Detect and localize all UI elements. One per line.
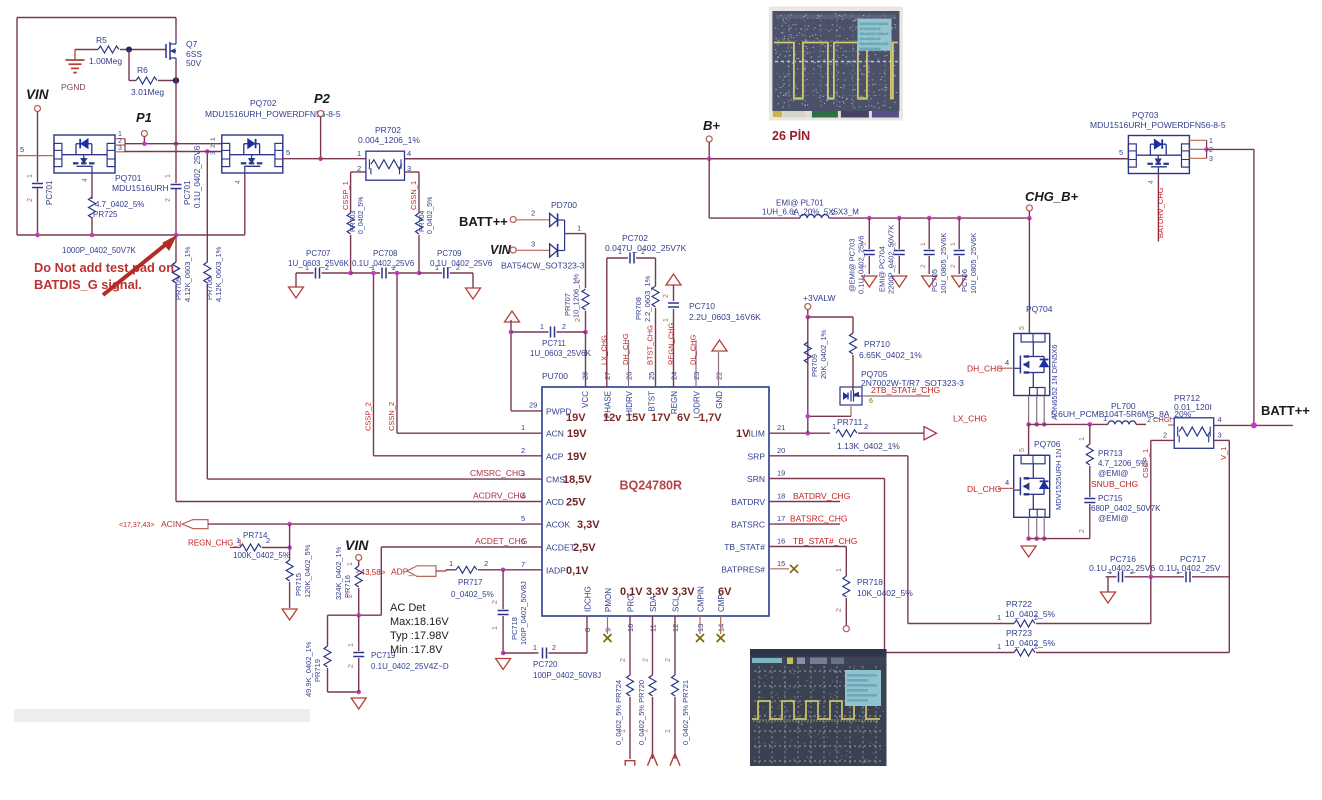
svg-text:BATDRV_CHG: BATDRV_CHG — [793, 491, 850, 501]
svg-text:2: 2 — [347, 594, 354, 598]
svg-text:PR717: PR717 — [458, 578, 483, 587]
svg-text:1: 1 — [577, 224, 581, 233]
svg-text:1: 1 — [435, 265, 439, 272]
svg-text:PR706: PR706 — [205, 277, 214, 300]
svg-text:1: 1 — [1176, 569, 1180, 576]
svg-text:0_0402_5% PR720: 0_0402_5% PR720 — [637, 680, 646, 745]
svg-text:17: 17 — [777, 514, 785, 523]
svg-text:3,3V: 3,3V — [646, 586, 669, 598]
svg-text:BAT54CW_SOT323-3: BAT54CW_SOT323-3 — [501, 261, 585, 271]
svg-text:3: 3 — [1218, 431, 1222, 440]
svg-text:ACP: ACP — [546, 451, 564, 461]
svg-text:17V: 17V — [651, 412, 671, 424]
svg-text:15V: 15V — [626, 412, 646, 424]
svg-text:1: 1 — [449, 559, 453, 568]
svg-text:REGN_CHG_1: REGN_CHG_1 — [188, 539, 243, 548]
svg-text:LX_CHG: LX_CHG — [600, 335, 609, 365]
svg-text:EMI@ PL701: EMI@ PL701 — [776, 199, 824, 208]
svg-text:PQ703: PQ703 — [1132, 110, 1159, 120]
svg-text:SRN: SRN — [747, 474, 765, 484]
svg-text:1: 1 — [1209, 138, 1213, 145]
svg-text:V_1: V_1 — [1219, 447, 1228, 460]
svg-text:ADP_: ADP_ — [391, 567, 413, 577]
svg-text:324K_0402_1%: 324K_0402_1% — [334, 546, 343, 600]
svg-text:0.047U_0402_25V7K: 0.047U_0402_25V7K — [605, 243, 687, 253]
svg-text:0_0402_5% PR724: 0_0402_5% PR724 — [614, 680, 623, 745]
svg-text:49.9K_0402_1%: 49.9K_0402_1% — [304, 641, 313, 697]
svg-text:1,7V: 1,7V — [699, 412, 722, 424]
svg-text:PMON: PMON — [604, 588, 613, 612]
svg-text:2: 2 — [860, 264, 867, 268]
svg-text:CSSN_1: CSSN_1 — [409, 181, 418, 210]
svg-text:1: 1 — [27, 174, 34, 178]
svg-text:4: 4 — [1005, 478, 1009, 487]
svg-text:10K_0402_5%: 10K_0402_5% — [857, 588, 913, 598]
svg-text:29: 29 — [529, 401, 537, 410]
svg-text:1: 1 — [663, 318, 670, 322]
svg-text:4: 4 — [82, 178, 89, 182]
svg-text:1: 1 — [860, 242, 867, 246]
svg-text:2: 2 — [357, 164, 361, 173]
svg-text:2: 2 — [1034, 613, 1038, 622]
svg-text:19V: 19V — [567, 451, 587, 463]
svg-text:1: 1 — [305, 265, 309, 272]
svg-text:CSSP_2: CSSP_2 — [364, 402, 373, 431]
svg-text:5: 5 — [20, 145, 24, 154]
svg-text:ACDRV_CHG: ACDRV_CHG — [473, 491, 526, 501]
svg-text:@EMI@: @EMI@ — [1098, 469, 1128, 478]
svg-text:1: 1 — [236, 536, 240, 545]
svg-text:PQ702: PQ702 — [250, 98, 277, 108]
svg-text:PR718: PR718 — [857, 577, 883, 587]
svg-text:50V: 50V — [186, 58, 201, 68]
svg-text:2: 2 — [492, 600, 499, 604]
svg-text:BATT++: BATT++ — [459, 214, 508, 229]
svg-text:1: 1 — [521, 423, 525, 432]
svg-text:PC706: PC706 — [960, 269, 969, 292]
svg-text:PC711: PC711 — [542, 339, 566, 348]
svg-text:1: 1 — [836, 568, 843, 572]
svg-text:ACDET: ACDET — [546, 543, 575, 553]
svg-text:2: 2 — [620, 658, 627, 662]
svg-text:1: 1 — [920, 242, 927, 246]
svg-text:100P_0402_50V8J: 100P_0402_50V8J — [533, 671, 601, 680]
svg-text:21: 21 — [777, 423, 785, 432]
svg-text:CSCP_1: CSCP_1 — [1141, 449, 1150, 478]
svg-text:10_0402_5%: 10_0402_5% — [1005, 609, 1056, 619]
svg-text:TB_STAT#_CHG: TB_STAT#_CHG — [793, 536, 857, 546]
svg-text:0.1U_0402_25V: 0.1U_0402_25V — [1159, 563, 1221, 573]
svg-text:Min :17.8V: Min :17.8V — [390, 644, 443, 656]
svg-text:BATT++: BATT++ — [1261, 403, 1310, 418]
svg-text:1.13K_0402_1%: 1.13K_0402_1% — [837, 441, 900, 451]
svg-text:28: 28 — [581, 372, 590, 380]
svg-text:PR709: PR709 — [810, 354, 819, 377]
svg-text:PC707: PC707 — [306, 249, 331, 258]
svg-text:6V: 6V — [677, 412, 691, 424]
svg-text:4.7_0402_5%: 4.7_0402_5% — [95, 200, 144, 209]
svg-text:1: 1 — [492, 626, 499, 630]
svg-text:SNUB_CHG: SNUB_CHG — [1091, 479, 1138, 489]
svg-text:+3VALW: +3VALW — [803, 293, 836, 303]
svg-text:5: 5 — [286, 148, 290, 157]
svg-text:2: 2 — [950, 264, 957, 268]
svg-text:0.01_120I: 0.01_120I — [1174, 402, 1212, 412]
svg-text:0_0402_5%: 0_0402_5% — [451, 590, 494, 599]
svg-text:2: 2 — [562, 324, 566, 331]
svg-text:10_0402_5%: 10_0402_5% — [1005, 638, 1056, 648]
svg-text:2: 2 — [210, 144, 217, 148]
svg-text:2: 2 — [864, 422, 868, 431]
svg-text:2: 2 — [392, 265, 396, 272]
svg-text:2: 2 — [1130, 569, 1134, 576]
svg-text:DL_CHG: DL_CHG — [967, 484, 1001, 494]
svg-text:1U_0603_25V6K: 1U_0603_25V6K — [288, 259, 350, 268]
svg-text:VIN: VIN — [490, 243, 512, 257]
svg-text:BATSRC_CHG: BATSRC_CHG — [790, 514, 847, 524]
svg-text:2: 2 — [552, 645, 556, 652]
svg-text:0.1U_0402_25V4Z~D: 0.1U_0402_25V4Z~D — [371, 662, 449, 671]
svg-text:2: 2 — [456, 265, 460, 272]
svg-text:2,5V: 2,5V — [573, 542, 596, 554]
svg-text:1: 1 — [832, 422, 836, 431]
svg-text:1: 1 — [348, 643, 355, 647]
svg-text:CHG_B+: CHG_B+ — [1025, 189, 1079, 204]
svg-text:7: 7 — [521, 560, 525, 569]
svg-text:PR708: PR708 — [634, 297, 643, 320]
svg-text:<17,37,43>: <17,37,43> — [119, 522, 154, 529]
svg-text:PQ704: PQ704 — [1026, 304, 1053, 314]
svg-text:Q7: Q7 — [186, 39, 198, 49]
svg-text:ILIM: ILIM — [748, 429, 765, 439]
svg-text:2: 2 — [663, 294, 670, 298]
svg-text:2: 2 — [1079, 529, 1086, 533]
svg-text:TB_STAT#: TB_STAT# — [724, 542, 765, 552]
svg-text:2: 2 — [665, 658, 672, 662]
svg-text:PC715: PC715 — [1098, 494, 1123, 503]
svg-text:2: 2 — [1034, 642, 1038, 651]
svg-text:LX_CHG: LX_CHG — [953, 414, 987, 424]
svg-text:PR711: PR711 — [837, 417, 863, 427]
svg-text:1: 1 — [665, 729, 672, 733]
svg-text:4: 4 — [407, 149, 411, 158]
svg-text:PR723: PR723 — [1006, 628, 1032, 638]
svg-text:15: 15 — [777, 559, 785, 568]
svg-text:2: 2 — [836, 608, 843, 612]
svg-text:3.01Meg: 3.01Meg — [131, 87, 164, 97]
svg-text:1: 1 — [997, 642, 1001, 651]
svg-text:CSSP_1: CSSP_1 — [341, 181, 350, 210]
svg-text:P2: P2 — [314, 91, 331, 106]
svg-text:2200P_0402_50V7K: 2200P_0402_50V7K — [886, 225, 895, 294]
svg-text:2: 2 — [348, 664, 355, 668]
svg-text:1: 1 — [540, 324, 544, 331]
svg-text:25V: 25V — [566, 497, 586, 509]
svg-text:PC701: PC701 — [45, 180, 54, 205]
svg-text:ACDET_CHG: ACDET_CHG — [475, 536, 527, 546]
svg-text:CMSRC_CHG: CMSRC_CHG — [470, 468, 525, 478]
svg-text:1: 1 — [1108, 569, 1112, 576]
svg-text:0.1U_0402_25V6: 0.1U_0402_25V6 — [193, 145, 202, 208]
svg-text:PQ706: PQ706 — [1034, 439, 1061, 449]
svg-text:Max:18.16V: Max:18.16V — [390, 616, 449, 628]
svg-text:10U_0805_25V6K: 10U_0805_25V6K — [939, 233, 948, 294]
svg-text:EMI@ PC704: EMI@ PC704 — [877, 246, 886, 292]
svg-text:PC705: PC705 — [930, 269, 939, 292]
svg-text:1U_0603_25V6K: 1U_0603_25V6K — [530, 349, 592, 358]
svg-text:1: 1 — [950, 242, 957, 246]
svg-text:1V: 1V — [736, 428, 750, 440]
svg-text:2: 2 — [27, 198, 34, 202]
svg-text:2: 2 — [118, 138, 122, 145]
svg-text:Do Not add test pad on: Do Not add test pad on — [34, 260, 174, 275]
svg-text:1000P_0402_50V7K: 1000P_0402_50V7K — [62, 246, 137, 255]
svg-text:5: 5 — [1119, 148, 1123, 157]
svg-text:1: 1 — [575, 279, 582, 283]
svg-text:P1: P1 — [136, 110, 152, 125]
svg-text:1: 1 — [997, 613, 1001, 622]
svg-text:DH_CHG: DH_CHG — [967, 364, 1003, 374]
svg-text:1: 1 — [118, 131, 122, 138]
svg-text:26 PİN: 26 PİN — [772, 128, 810, 143]
svg-text:4: 4 — [1005, 358, 1009, 367]
svg-text:BATSRC: BATSRC — [731, 520, 765, 530]
svg-text:PC702: PC702 — [622, 233, 648, 243]
svg-text:PD700: PD700 — [551, 200, 577, 210]
svg-text:3: 3 — [1209, 156, 1213, 163]
svg-text:0.1U_0402_25V6: 0.1U_0402_25V6 — [352, 259, 415, 268]
svg-text:BATDRV_CHG: BATDRV_CHG — [1156, 187, 1165, 238]
svg-text:1: 1 — [1079, 437, 1086, 441]
svg-text:BTST: BTST — [648, 391, 657, 412]
svg-text:1UH_6.6A_20%_5X5X3_M: 1UH_6.6A_20%_5X5X3_M — [762, 208, 859, 217]
svg-text:CMPIN: CMPIN — [697, 586, 706, 612]
svg-text:2: 2 — [1209, 147, 1213, 154]
svg-text:4.12K_0603_1%: 4.12K_0603_1% — [214, 246, 223, 302]
svg-text:100P_0402_50V8J: 100P_0402_50V8J — [519, 581, 528, 645]
svg-text:PR713: PR713 — [1098, 449, 1123, 458]
svg-text:PR714: PR714 — [243, 531, 268, 540]
svg-text:MDU1516URH_POWERDFN56-8-5: MDU1516URH_POWERDFN56-8-5 — [1090, 120, 1226, 130]
svg-text:2.2_0603_1%: 2.2_0603_1% — [643, 275, 652, 322]
svg-text:VCC: VCC — [581, 391, 590, 408]
svg-text:4: 4 — [235, 180, 242, 184]
svg-text:GND: GND — [715, 391, 724, 409]
svg-text:@EMI@: @EMI@ — [1098, 514, 1128, 523]
svg-text:3: 3 — [531, 240, 535, 249]
svg-text:0_0402_5%: 0_0402_5% — [358, 197, 365, 234]
svg-text:PR702: PR702 — [375, 125, 401, 135]
svg-text:PC701: PC701 — [183, 180, 192, 205]
svg-text:PR705: PR705 — [174, 277, 183, 300]
svg-text:0.1U_0402_25V6: 0.1U_0402_25V6 — [430, 259, 493, 268]
svg-text:2: 2 — [484, 559, 488, 568]
svg-text:6V: 6V — [718, 586, 732, 598]
svg-text:PC718: PC718 — [510, 617, 519, 640]
svg-text:5: 5 — [521, 514, 525, 523]
svg-text:20K_0402_1%: 20K_0402_1% — [819, 329, 828, 379]
svg-text:IADP: IADP — [546, 565, 566, 575]
svg-text:B+: B+ — [703, 118, 720, 133]
svg-text:PC709: PC709 — [437, 249, 462, 258]
svg-text:18,5V: 18,5V — [563, 474, 592, 486]
svg-text:PGND: PGND — [61, 82, 86, 92]
svg-text:2.2U_0603_16V6K: 2.2U_0603_16V6K — [689, 312, 761, 322]
svg-text:2: 2 — [890, 264, 897, 268]
svg-text:ACN: ACN — [546, 429, 564, 439]
svg-text:10U_0805_25V6K: 10U_0805_25V6K — [969, 233, 978, 294]
svg-text:2: 2 — [1163, 431, 1167, 440]
svg-text:2: 2 — [325, 265, 329, 272]
svg-text:AC Det: AC Det — [390, 602, 425, 614]
svg-text:3: 3 — [210, 151, 217, 155]
svg-text:5.6UH_PCMB104T-5R6MS_8A_20%: 5.6UH_PCMB104T-5R6MS_8A_20% — [1051, 409, 1192, 419]
svg-text:VIN: VIN — [26, 87, 49, 102]
svg-text:3,3V: 3,3V — [577, 519, 600, 531]
svg-text:BTST_CHG: BTST_CHG — [646, 325, 655, 365]
svg-text:6.65K_0402_1%: 6.65K_0402_1% — [859, 350, 922, 360]
svg-text:PR710: PR710 — [864, 339, 890, 349]
svg-text:2: 2 — [643, 658, 650, 662]
svg-text:PC710: PC710 — [689, 301, 715, 311]
svg-text:0_0402_5% PR721: 0_0402_5% PR721 — [681, 680, 690, 745]
svg-text:PR703: PR703 — [350, 210, 357, 232]
svg-text:PQ701: PQ701 — [115, 173, 142, 183]
svg-text:1: 1 — [533, 645, 537, 652]
svg-text:BQ24780R: BQ24780R — [620, 479, 683, 493]
svg-text:19: 19 — [777, 469, 785, 478]
svg-text:SRP: SRP — [748, 451, 766, 461]
svg-text:PR722: PR722 — [1006, 599, 1032, 609]
svg-text:R5: R5 — [96, 35, 107, 45]
svg-text:1: 1 — [210, 137, 217, 141]
svg-text:4.7_1206_5%: 4.7_1206_5% — [1098, 459, 1147, 468]
svg-text:4: 4 — [1148, 180, 1155, 184]
svg-text:4: 4 — [1218, 415, 1222, 424]
svg-text:1.00Meg: 1.00Meg — [89, 56, 122, 66]
svg-text:IDCHG: IDCHG — [584, 586, 593, 612]
svg-text:PR704: PR704 — [419, 210, 426, 232]
svg-text:@EMI@ PC703: @EMI@ PC703 — [847, 238, 856, 292]
svg-text:PR715: PR715 — [294, 573, 303, 596]
svg-text:2TB_STAT#_CHG: 2TB_STAT#_CHG — [871, 385, 940, 395]
svg-text:100K_0402_5%: 100K_0402_5% — [233, 551, 290, 560]
svg-text:1: 1 — [357, 149, 361, 158]
svg-text:0.004_1206_1%: 0.004_1206_1% — [358, 135, 420, 145]
svg-text:R6: R6 — [137, 65, 148, 75]
svg-text:0.1U_0402_25V6: 0.1U_0402_25V6 — [1089, 563, 1155, 573]
svg-text:ACD: ACD — [546, 497, 564, 507]
svg-text:4.12K_0603_1%: 4.12K_0603_1% — [183, 246, 192, 302]
svg-text:PR725: PR725 — [93, 210, 118, 219]
svg-text:CSSN_2: CSSN_2 — [387, 402, 396, 431]
svg-text:12v: 12v — [603, 412, 622, 424]
svg-text:ACOK: ACOK — [546, 520, 570, 530]
svg-text:3: 3 — [118, 145, 122, 152]
svg-text:PU700: PU700 — [542, 371, 568, 381]
svg-text:<43,58>: <43,58> — [356, 568, 386, 577]
svg-text:3: 3 — [407, 164, 411, 173]
svg-text:ACIN: ACIN — [161, 519, 181, 529]
svg-text:1: 1 — [165, 174, 172, 178]
svg-text:20: 20 — [777, 446, 785, 455]
svg-text:6: 6 — [869, 398, 873, 405]
svg-text:MDU1516URH: MDU1516URH — [112, 183, 169, 193]
svg-text:25: 25 — [647, 372, 656, 380]
svg-text:5: 5 — [1019, 448, 1026, 452]
svg-text:0,1V: 0,1V — [566, 565, 589, 577]
svg-text:0,1V: 0,1V — [620, 586, 643, 598]
svg-text:DH_CHG: DH_CHG — [621, 333, 630, 365]
svg-text:Typ :17.98V: Typ :17.98V — [390, 630, 449, 642]
svg-text:BATPRES#: BATPRES# — [721, 564, 765, 574]
svg-text:16: 16 — [777, 537, 785, 546]
svg-text:1: 1 — [347, 562, 354, 566]
svg-text:3,3V: 3,3V — [672, 586, 695, 598]
svg-text:18: 18 — [777, 492, 785, 501]
svg-text:19V: 19V — [566, 412, 586, 424]
svg-text:PC708: PC708 — [373, 249, 398, 258]
svg-text:DL_CHG: DL_CHG — [689, 334, 698, 365]
svg-text:VIN: VIN — [345, 537, 369, 553]
svg-text:19V: 19V — [567, 428, 587, 440]
svg-text:PR719: PR719 — [313, 659, 322, 682]
svg-text:REGN: REGN — [670, 391, 679, 414]
svg-text:120K_0402_5%: 120K_0402_5% — [303, 544, 312, 598]
svg-text:2: 2 — [165, 198, 172, 202]
svg-text:2: 2 — [575, 318, 582, 322]
svg-text:5: 5 — [1019, 326, 1026, 330]
svg-text:MDV1525URH 1N: MDV1525URH 1N — [1054, 449, 1063, 510]
svg-text:0_0402_5%: 0_0402_5% — [427, 197, 434, 234]
svg-text:SCL: SCL — [672, 596, 681, 612]
svg-text:2: 2 — [521, 446, 525, 455]
svg-text:2: 2 — [920, 264, 927, 268]
svg-text:REGN_CHG: REGN_CHG — [667, 322, 676, 365]
svg-text:PC720: PC720 — [533, 660, 558, 669]
svg-text:1: 1 — [890, 242, 897, 246]
svg-text:2: 2 — [531, 209, 535, 218]
svg-text:BATDRV: BATDRV — [731, 497, 765, 507]
